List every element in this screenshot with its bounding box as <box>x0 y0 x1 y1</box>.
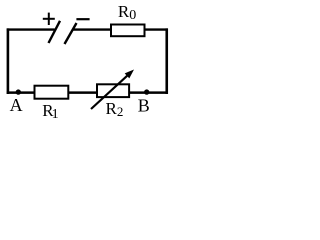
wire: battery to R0 <box>73 28 112 30</box>
wire: right vertical <box>165 28 168 94</box>
rheostat R2 box <box>97 84 129 97</box>
battery cell plate (negative, slanted) <box>65 23 77 44</box>
node B dot <box>144 89 149 94</box>
resistor R0 <box>111 25 145 37</box>
wire: bottom left to R1 <box>7 91 35 94</box>
wire: R2 to bottom right corner <box>129 91 168 94</box>
svg-text:1: 1 <box>52 107 59 122</box>
rheostat R2 arrow <box>91 70 134 110</box>
svg-text:A: A <box>10 95 23 115</box>
wire: R0 to top right corner <box>145 28 168 30</box>
wire: top left horizontal to battery <box>7 28 55 30</box>
svg-text:R2: R2 <box>106 99 124 119</box>
minus sign label <box>76 18 89 20</box>
svg-text:B: B <box>138 95 150 115</box>
battery cell plate (positive, slanted) <box>49 21 61 43</box>
wire: R1 to R2 <box>68 91 97 94</box>
svg-text:R0: R0 <box>118 2 136 23</box>
plus sign label <box>43 13 55 25</box>
wire: left vertical <box>7 28 10 94</box>
resistor R1 <box>35 86 69 99</box>
node A dot <box>16 89 21 94</box>
